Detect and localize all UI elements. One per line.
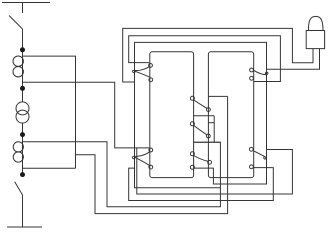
relay box1	[150, 52, 194, 178]
box1 terminal circle bottom-upper	[149, 148, 153, 152]
bell body	[306, 31, 324, 49]
box2 bottom diagonal with curl	[254, 151, 266, 159]
wire loop B6: from W1 branch around bottom to box2 right terminal	[137, 148, 293, 194]
winding unit2 diagonal	[194, 125, 207, 134]
winding unit1 circle R	[207, 108, 211, 112]
disconnect switch QS1 blade	[9, 16, 23, 30]
CT1 top tap wire to node Va	[23, 56, 76, 168]
box1 top diagonal with curl	[133, 67, 150, 77]
winding unit4 circle L	[190, 165, 194, 169]
CT1 bottom tap wire to box1 lower terminal	[23, 82, 150, 148]
tap rung 2	[208, 122, 214, 124]
winding unit1 circle L	[190, 96, 194, 100]
winding unit3 circle R	[208, 160, 212, 164]
wire h96 tap	[208, 95, 227, 97]
wire feeder mid	[22, 123, 24, 175]
transformer T circles	[16, 102, 29, 115]
node dot C	[20, 132, 25, 137]
tap rung 1	[194, 115, 215, 117]
winding unit2 circle R	[206, 134, 210, 138]
wire feeder lower	[22, 195, 24, 227]
winding unit3 circle L	[190, 152, 194, 156]
CT1 coil circles	[13, 56, 23, 66]
CT2 bottom tap wire	[23, 167, 76, 169]
relay box2	[208, 52, 253, 178]
wire bell right: from v266 T to bell right leg	[267, 49, 320, 70]
winding unit2 circle L	[190, 122, 194, 126]
box1 terminal circle bottom-lower	[149, 165, 153, 169]
winding unit3 diagonal	[194, 156, 209, 162]
wire nest3: B2 up via v134 over top down v266 to B1 and mid tap	[135, 42, 267, 187]
disconnect switch QS2 blade	[15, 182, 23, 195]
box2 terminal circle bottom-upper	[249, 147, 253, 151]
wire busbar drop	[22, 3, 24, 14]
wire feeder upper	[22, 29, 24, 102]
node dot A	[20, 47, 25, 52]
node dot D	[20, 172, 25, 177]
bell dome	[308, 16, 323, 30]
box1 terminal circle top-upper	[149, 64, 153, 68]
busbar	[2, 2, 50, 4]
CT2 coil circles	[13, 142, 23, 152]
wire loop B5: CT2 top tap around bottom up to h142 tap	[23, 142, 221, 207]
wire loop B4: Va branch down around bottom up to h96 tap	[76, 96, 228, 213]
wire nest1: stub to v134, up over top to bell left leg	[123, 28, 313, 82]
box2 terminal circle top-upper	[250, 68, 254, 72]
box1 bottom diagonal with curl	[132, 152, 149, 166]
wire nest2: box1 upper terminal over top to box2 upper-right terminal	[129, 36, 281, 82]
box2 top arc with curl	[254, 70, 268, 74]
tap box edge	[213, 116, 215, 143]
ground bar	[7, 226, 42, 228]
winding unit1 diagonal	[194, 100, 207, 109]
box2 terminal circle bottom-lower	[250, 165, 254, 169]
box1 terminal circle top-lower	[149, 78, 153, 82]
wire h142 mid tap	[194, 141, 221, 143]
node dot B	[20, 86, 25, 91]
wire loop B3: bracket from v134 around bottom to box2 lower-right terminal	[129, 168, 274, 201]
box2 terminal circle top-lower	[250, 76, 254, 80]
